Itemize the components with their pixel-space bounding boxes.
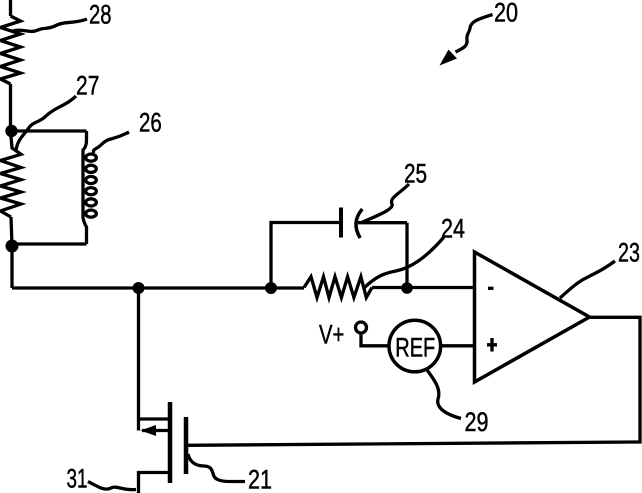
svg-text:31: 31 xyxy=(67,463,88,493)
svg-text:V+: V+ xyxy=(319,320,344,351)
svg-text:20: 20 xyxy=(494,0,518,28)
svg-text:24: 24 xyxy=(441,214,465,244)
svg-text:27: 27 xyxy=(76,71,99,101)
svg-text:21: 21 xyxy=(248,465,272,493)
svg-text:28: 28 xyxy=(89,0,112,30)
svg-text:REF: REF xyxy=(395,332,435,363)
svg-text:26: 26 xyxy=(139,108,162,138)
svg-text:25: 25 xyxy=(404,159,427,189)
svg-text:29: 29 xyxy=(465,408,489,438)
svg-text:23: 23 xyxy=(618,238,640,268)
